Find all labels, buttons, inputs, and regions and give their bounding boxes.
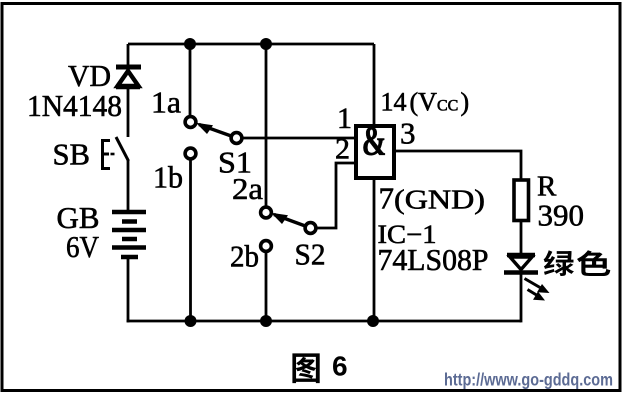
junction: bottom bus / IC pin 7 branch — [367, 315, 379, 327]
wire: resistor R to LED anode — [520, 220, 523, 253]
svg-text:7(GND): 7(GND) — [379, 181, 486, 216]
wire: S1 pivot to IC pin 1 — [242, 137, 356, 140]
resistor R — [514, 180, 529, 221]
diode VD (1N4148, cathode up) — [116, 67, 141, 88]
svg-text:1a: 1a — [151, 85, 181, 120]
junction: top bus / S2 contact 2a branch — [260, 38, 272, 50]
switch S2 wiper arm (pointing at contact 2a) — [271, 213, 308, 227]
wire: top bus junction down to contact 2a — [265, 44, 268, 207]
svg-text:S2: S2 — [295, 237, 326, 272]
svg-text:1: 1 — [337, 102, 352, 135]
svg-text:2a: 2a — [232, 171, 263, 206]
switch S2 pivot — [305, 223, 316, 234]
LED light emission arrows — [525, 279, 550, 301]
figure caption 图6 — [292, 351, 347, 384]
svg-text:390: 390 — [538, 198, 585, 233]
wire: LED cathode down to bottom bus — [520, 274, 523, 322]
svg-text:SB: SB — [53, 137, 91, 172]
switch S1 pivot — [231, 133, 242, 144]
switch S1 contact 1b — [185, 148, 196, 159]
svg-text:6: 6 — [332, 351, 348, 382]
svg-text:2b: 2b — [230, 239, 259, 274]
wire: battery GB negative plate down to bottom bus — [127, 257, 130, 322]
wire: bottom bus (ground return) — [127, 320, 521, 323]
junction: bottom bus / switch S2 contact 2b branch — [260, 315, 272, 327]
junction: bottom bus / switch S1 contact 1b branch — [185, 315, 197, 327]
svg-text:3: 3 — [400, 116, 416, 151]
switch S2 contact 2a — [261, 207, 272, 218]
wire: top bus corner down to IC pin 14 (Vcc) — [373, 44, 376, 126]
svg-text:6V: 6V — [66, 229, 100, 264]
svg-text:http://www.go-gddq.com: http://www.go-gddq.com — [444, 370, 613, 390]
svg-text:1b: 1b — [153, 160, 183, 195]
battery GB 6V — [112, 212, 146, 257]
svg-text:2: 2 — [335, 133, 350, 166]
wire: IC pin 3 output to resistor R — [394, 151, 521, 180]
wire: pushbutton SB to battery GB positive plate — [127, 160, 130, 212]
switch S1 contact 1a — [185, 117, 196, 128]
wire: top bus down to diode VD cathode — [127, 44, 130, 67]
svg-text:74LS08P: 74LS08P — [378, 243, 489, 277]
wire: contact 2b down to bottom bus — [265, 252, 268, 322]
wire: IC pin 7 (GND) down to bottom bus — [373, 178, 376, 321]
svg-text:14(VCC): 14(VCC) — [381, 88, 470, 117]
svg-text:1N4148: 1N4148 — [27, 88, 122, 123]
junction: top bus / S1 contact 1a branch — [184, 38, 196, 50]
wire: contact 1b down to bottom bus — [189, 159, 192, 321]
wire: S2 pivot right, up and into IC pin 2 — [316, 163, 356, 228]
pushbutton SB (normally-open) — [103, 137, 129, 169]
switch S1 wiper arm (pointing at contact 1a) — [196, 123, 234, 137]
switch S2 contact 2b — [261, 241, 272, 252]
wire: top bus junction down to contact 1a — [189, 44, 192, 116]
wire: top bus from left branch to gate pin 14 drop — [128, 43, 374, 46]
wire: diode VD anode to pushbutton SB — [127, 87, 130, 137]
AND gate U1 (74LS08 element, & symbol) — [356, 118, 394, 178]
label 绿色 (green) — [544, 250, 611, 276]
LED VL (green, cathode down) — [504, 255, 538, 273]
